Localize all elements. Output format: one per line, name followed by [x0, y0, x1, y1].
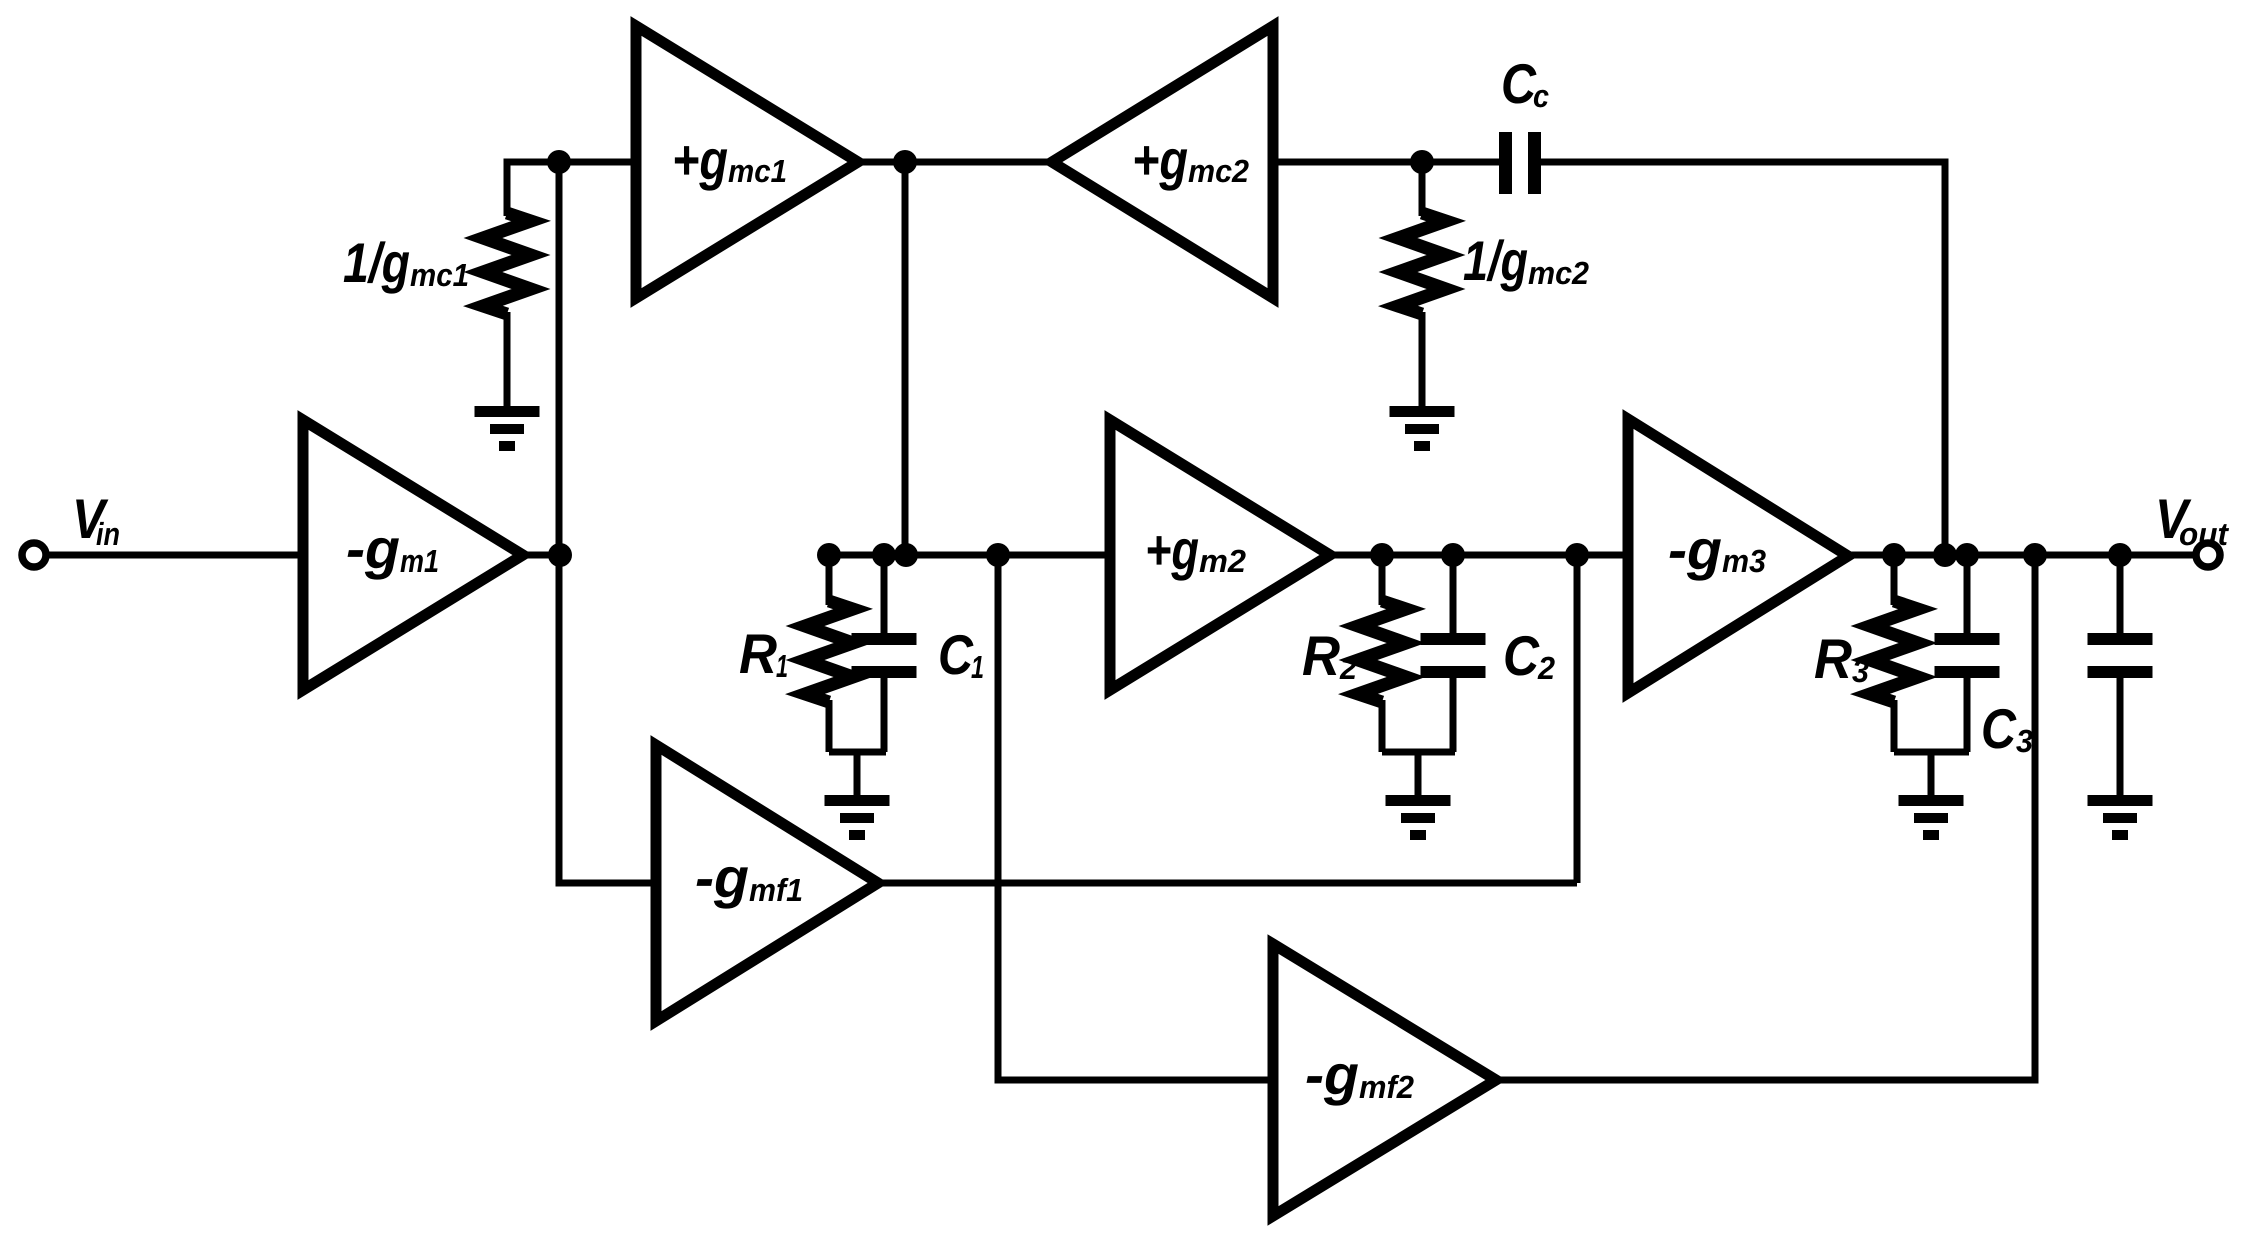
wire -gmf2 output up to Vout rail [1496, 555, 2035, 1080]
label -gm1 [346, 517, 439, 580]
svg-text:1: 1 [971, 649, 984, 685]
svg-text:mc2: mc2 [1188, 153, 1249, 189]
node junction dot -gmf2 output [2023, 543, 2047, 567]
wire CL bottom stub to ground [2117, 678, 2124, 796]
svg-text:C: C [1981, 697, 2017, 760]
svg-text:R: R [1814, 627, 1853, 690]
node junction dot C1 [872, 543, 896, 567]
wire C2 top stub [1450, 555, 1457, 634]
label -gmf1 [695, 846, 803, 909]
svg-text:R: R [1302, 624, 1341, 687]
wire node tap down to -gmf2 input [998, 555, 1273, 1080]
wire R2-C2 join bar [1382, 749, 1455, 756]
wire CL top stub [2117, 555, 2124, 634]
ground below CL [2088, 795, 2153, 840]
wire R1 top stub [826, 555, 833, 605]
svg-text:mc1: mc1 [728, 153, 787, 189]
wire Vin to -gm1 input [48, 552, 303, 559]
wire 1/gmc1 to ground [504, 312, 511, 407]
wire R2C2 to ground [1415, 752, 1422, 796]
label 1/gmc2 [1463, 229, 1589, 292]
svg-text:1/g: 1/g [343, 231, 410, 294]
wire -gmf1 output to node 2 riser [878, 880, 1577, 887]
op-amp -gm1 (input transconductor) [303, 420, 523, 690]
label +gm2 [1145, 518, 1246, 581]
node junction dot Cc riser [1933, 543, 1957, 567]
node B junction dot (+gmc1 output) [893, 150, 917, 174]
svg-text:m2: m2 [1199, 543, 1246, 579]
svg-text:out: out [2179, 516, 2229, 552]
label C2 [1503, 624, 1555, 687]
svg-text:C: C [1503, 624, 1540, 687]
svg-text:C: C [1501, 52, 1537, 115]
wire node 2 down to -gmf1 output [1574, 555, 1581, 883]
ground below R1C1 [825, 795, 890, 840]
op-amp +gmc1 (current buffer) [636, 26, 858, 298]
svg-text:-g: -g [1668, 518, 1722, 581]
node junction dot top rail [547, 150, 571, 174]
capacitor C2 [1421, 633, 1486, 678]
wire R1-C1 join bar [829, 749, 886, 756]
node 2 junction dot (-gmf1 feed) [1565, 543, 1589, 567]
svg-text:mc2: mc2 [1528, 255, 1589, 291]
label 1/gmc1 [343, 231, 469, 294]
node 1 junction dot (from +gmc1) [894, 543, 918, 567]
node junction dot C2 [1441, 543, 1465, 567]
node Vout output terminal [2196, 543, 2220, 567]
resistor 1/gmc2 [1398, 213, 1446, 314]
wire R3 top stub [1891, 555, 1898, 605]
capacitor C1 [852, 633, 917, 678]
ground below 1/gmc1 [475, 406, 540, 451]
svg-text:1/g: 1/g [1463, 229, 1528, 292]
op-amp -gm3 (output stage) [1628, 419, 1848, 693]
node junction dot R3 [1882, 543, 1906, 567]
capacitor CL (load) [2088, 633, 2153, 678]
label -gm3 [1668, 518, 1766, 581]
label C1 [938, 623, 984, 686]
ground below R2C2 [1386, 795, 1451, 840]
wire R3-C3 join bar [1894, 749, 1969, 756]
ground below 1/gmc2 [1390, 406, 1455, 451]
svg-text:2: 2 [1537, 650, 1555, 686]
wire node-1 rail to +gm2 input [829, 552, 1110, 559]
wire top rail corner to +gmc1 input [507, 162, 636, 216]
svg-text:-g: -g [695, 846, 749, 909]
node junction dot -gmf2 tap [986, 543, 1010, 567]
svg-text:3: 3 [1852, 653, 1869, 689]
svg-text:mf2: mf2 [1359, 1069, 1414, 1105]
svg-text:2: 2 [1339, 650, 1357, 686]
wire 1/gmc2 to ground [1419, 312, 1426, 407]
node C junction dot (1/gmc2 tap) [1410, 150, 1434, 174]
resistor R1 [805, 601, 853, 702]
label Vin [72, 487, 120, 552]
svg-text:-g: -g [1305, 1043, 1359, 1106]
label R2 [1302, 624, 1357, 687]
node junction dot R2 [1370, 543, 1394, 567]
resistor R2 [1358, 601, 1406, 702]
svg-text:R: R [739, 622, 778, 685]
resistor R3 [1870, 601, 1918, 702]
capacitor Cc (horizontal plates) [1499, 132, 1541, 194]
wire R1C1 to ground [854, 752, 861, 796]
wire R2 bottom stub [1379, 700, 1386, 752]
node junction dot C3 [1955, 543, 1979, 567]
wire C2 bottom stub [1450, 678, 1457, 752]
wire R1 bottom stub [826, 700, 833, 752]
svg-text:+g: +g [1132, 128, 1188, 191]
label R3 [1814, 627, 1869, 690]
wire node A up to top rail [556, 162, 563, 555]
svg-text:m3: m3 [1722, 543, 1766, 579]
ground below R3C3 [1899, 795, 1964, 840]
wire R3 bottom stub [1891, 700, 1898, 752]
wire -gm1 output stub [523, 552, 560, 559]
op-amp -gmf2 (feedforward 2) [1273, 944, 1496, 1216]
op-amp +gmc2 (left-pointing current buffer) [1052, 26, 1273, 298]
label C3 [1981, 697, 2033, 760]
wire R2 top stub [1379, 555, 1386, 605]
wire output rail Vout [1848, 552, 2194, 559]
wire Cc feedback riser down to output rail [1541, 162, 1945, 555]
op-amp +gm2 (second stage) [1110, 420, 1330, 690]
label Cc [1501, 52, 1549, 115]
wire node B down to node 1 rail [902, 162, 909, 555]
wire node C down to 1/gmc2 [1419, 162, 1426, 216]
wire node A down to -gmf1 input [559, 555, 656, 883]
capacitor C3 [1935, 633, 2000, 678]
svg-text:c: c [1533, 78, 1549, 114]
wire +gmc1 output to +gmc2 output node [858, 159, 1052, 166]
node Vin input terminal [22, 543, 46, 567]
resistor 1/gmc1 [483, 213, 531, 314]
svg-text:3: 3 [2016, 723, 2033, 759]
wire +gmc2 input to Cc [1273, 159, 1499, 166]
svg-text:-g: -g [346, 517, 400, 580]
svg-text:+g: +g [1145, 518, 1199, 581]
wire node-2 rail to -gm3 input [1330, 552, 1628, 559]
wire C3 top stub [1964, 555, 1971, 634]
wire C3 bottom stub [1964, 678, 1971, 752]
svg-text:mf1: mf1 [749, 872, 803, 908]
svg-text:mc1: mc1 [410, 257, 469, 293]
svg-text:m1: m1 [400, 543, 439, 579]
svg-text:in: in [96, 516, 120, 552]
label -gmf2 [1305, 1043, 1414, 1106]
node junction dot load capacitor [2108, 543, 2132, 567]
label +gmc1 [672, 128, 787, 191]
node junction dot R1 [817, 543, 841, 567]
label R1 [739, 622, 788, 685]
svg-text:+g: +g [672, 128, 728, 191]
label Vout [2155, 487, 2229, 552]
wire C1 top stub [881, 555, 888, 634]
svg-text:1: 1 [776, 648, 788, 684]
label +gmc2 [1132, 128, 1249, 191]
svg-text:C: C [938, 623, 974, 686]
wire C1 bottom stub [881, 678, 888, 752]
wire R3C3 to ground [1928, 752, 1935, 796]
node A junction dot (-gm1 output) [548, 543, 572, 567]
op-amp -gmf1 (feedforward 1) [656, 745, 878, 1021]
